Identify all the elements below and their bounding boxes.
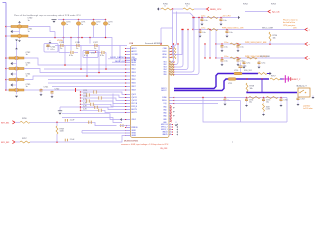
ground below C752 xyxy=(224,102,227,105)
IC right pin VD5 xyxy=(169,71,174,73)
wire nested L x178 xyxy=(174,44,178,65)
junction C754 xyxy=(246,97,248,99)
wire C761 output distribution xyxy=(28,38,112,59)
svg-text:1n: 1n xyxy=(108,24,110,26)
resistor at right pin CKIH xyxy=(172,48,177,50)
resistor at right pin VD4 xyxy=(170,69,175,71)
wire C760 output xyxy=(28,27,55,32)
wire dist drop x71 xyxy=(70,38,72,51)
IC left pin VDD2 xyxy=(125,68,130,70)
svg-text:0.1u: 0.1u xyxy=(223,20,227,22)
svg-text:GND3: GND3 xyxy=(132,135,136,137)
svg-text:U7A: U7A xyxy=(129,42,134,45)
svg-text:VD1: VD1 xyxy=(163,62,166,64)
IC right pin CLKO xyxy=(169,51,172,53)
junction dist x62 xyxy=(63,37,65,39)
net flag arrow left of R750 xyxy=(157,7,159,10)
inductor bank row xyxy=(207,29,218,31)
wire vertical x182 to pin CLKO xyxy=(174,30,182,55)
capacitor C750 second row xyxy=(100,51,106,54)
IC left pin VDD8 xyxy=(125,89,130,91)
wire rail to C763 xyxy=(6,68,9,70)
ground below bank cap xyxy=(201,22,204,25)
svg-text:1n: 1n xyxy=(26,65,28,67)
ground below bank cap xyxy=(221,63,224,66)
svg-text:VPG0: VPG0 xyxy=(162,54,166,56)
junction C756 xyxy=(280,97,282,99)
svg-text:VD5: VD5 xyxy=(163,72,166,74)
junction ferrite 2 xyxy=(78,19,80,21)
wire vertical x176.5 top feed xyxy=(172,12,177,47)
wire lock detect xyxy=(108,58,127,60)
svg-text:L=120 ohm: L=120 ohm xyxy=(303,108,313,110)
svg-text:1n: 1n xyxy=(81,24,83,26)
wire dist rise x78 xyxy=(78,26,80,38)
junction nested top x183 xyxy=(182,29,183,30)
ground far right xyxy=(312,96,315,99)
wire row C733 xyxy=(81,97,99,99)
svg-text:RESET_2: RESET_2 xyxy=(291,79,301,81)
inductor bank row xyxy=(207,17,218,19)
svg-text:VDD2: VDD2 xyxy=(132,69,136,71)
IC left pin RST_IN xyxy=(125,103,130,105)
capacitor C742 xyxy=(51,90,54,95)
capacitor C756 in filter box xyxy=(280,98,283,103)
capacitor C747 on top rail xyxy=(93,44,99,47)
svg-text:VDDG: VDDG xyxy=(162,100,167,102)
capacitor C745 on top rail xyxy=(59,44,65,47)
resistor R750 xyxy=(161,8,172,10)
ground below C757 xyxy=(297,103,300,106)
filter box bottom edge xyxy=(241,121,288,123)
junction nested top x178 xyxy=(177,43,178,44)
wire drop v3 xyxy=(98,46,100,73)
wire bank feed x216 xyxy=(215,30,217,59)
IC left pin PWRON xyxy=(125,127,130,129)
svg-text:PWRON: PWRON xyxy=(132,127,138,129)
wire to mid ground xyxy=(60,94,113,108)
svg-text:VD4: VD4 xyxy=(163,69,166,71)
ground below bank cap xyxy=(237,49,240,52)
ground below bank cap xyxy=(237,63,240,66)
capacitor/resistor on row 2.2K xyxy=(90,103,92,106)
svg-text:10u: 10u xyxy=(249,102,252,104)
svg-text:1n: 1n xyxy=(76,48,78,50)
svg-text:R766: R766 xyxy=(22,118,27,120)
svg-text:10n: 10n xyxy=(244,66,247,68)
wire rail to C765 xyxy=(6,89,9,91)
svg-text:BOOT1: BOOT1 xyxy=(132,112,137,114)
ground below bank cap xyxy=(226,34,229,37)
svg-text:VDD6: VDD6 xyxy=(132,83,136,85)
ground arrow left feedthrough bank xyxy=(11,83,13,86)
junction on rail at FB2 xyxy=(5,35,7,37)
svg-text:GND: GND xyxy=(163,113,166,115)
net stub row 2.2K y104.3 xyxy=(80,104,81,105)
wire row C732 xyxy=(81,94,87,96)
IC left pin AVCC1 xyxy=(125,48,130,50)
capacitor/resistor on row 2.2K xyxy=(98,109,100,112)
svg-text:QVCC1: QVCC1 xyxy=(132,97,137,99)
ground arrow above C762 xyxy=(15,48,18,50)
bus wire C xyxy=(48,82,127,84)
capacitor on bank row xyxy=(221,57,223,59)
svg-text:NVCC_EMI: NVCC_EMI xyxy=(260,56,270,58)
ground right-mid xyxy=(258,65,261,68)
svg-text:GND24: GND24 xyxy=(162,132,167,134)
wire sys clk xyxy=(245,11,268,13)
wire row 4.7K xyxy=(81,100,87,102)
IC U7B body xyxy=(131,46,170,138)
junction C755 xyxy=(263,97,265,99)
svg-text:GND: GND xyxy=(163,119,166,121)
svg-text:CPU pwr pins: CPU pwr pins xyxy=(283,25,295,27)
svg-text:LOCKD: LOCKD xyxy=(132,59,138,61)
wire bank row y17.5 xyxy=(193,17,236,19)
IC left pin GND3 xyxy=(125,135,130,137)
resistor at right pin VD3 xyxy=(170,66,175,68)
inductor L751 inline path B xyxy=(228,78,236,80)
svg-text:0.1u: 0.1u xyxy=(100,55,104,57)
svg-text:POR_B: POR_B xyxy=(132,106,137,108)
junction on rail at C764 xyxy=(5,79,7,81)
wire C762 output xyxy=(24,58,127,65)
svg-text:NVCC2: NVCC2 xyxy=(161,90,166,92)
junction bottom row2 xyxy=(56,141,58,143)
ground arrow left of ferrite row xyxy=(52,19,57,21)
net flag SENS_CPU xyxy=(206,7,209,10)
svg-text:VPG1: VPG1 xyxy=(162,57,166,59)
wire vertical x205 xyxy=(204,44,206,58)
svg-text:BOOT0: BOOT0 xyxy=(132,109,137,111)
capacitor C752 on y97 xyxy=(224,97,225,98)
inductor bank row xyxy=(230,57,241,59)
wire drop v6 xyxy=(119,46,121,63)
IC pin arrow VREF xyxy=(120,118,122,121)
red net stub x75 xyxy=(75,88,77,92)
svg-text:VDD_1P4: VDD_1P4 xyxy=(244,70,252,72)
IC left pin QVCC1 xyxy=(125,97,130,99)
feedthrough capacitor C765 xyxy=(9,88,24,91)
svg-text:FUSE: FUSE xyxy=(162,97,166,99)
svg-text:and filter: and filter xyxy=(303,105,311,108)
svg-text:VDD4: VDD4 xyxy=(132,76,136,78)
ground below C741 xyxy=(40,93,43,96)
net stub row C732 y95.0 xyxy=(79,94,81,96)
net stub row C733 y98.0 xyxy=(80,97,81,98)
IC left pin VDD1 xyxy=(125,64,130,66)
ferrite bead FB76 xyxy=(78,20,80,22)
capacitor on bank row xyxy=(220,17,222,19)
svg-text:0.1u: 0.1u xyxy=(51,49,55,51)
IC left pin VDD4 xyxy=(125,75,130,77)
svg-text:GPIO1_B: GPIO1_B xyxy=(161,124,168,126)
net flag end of bank row xyxy=(305,28,308,31)
ground below C754 xyxy=(245,104,248,107)
wire mux out xyxy=(112,61,127,63)
svg-text:Place all the feedthrough caps: Place all the feedthrough caps on second… xyxy=(14,14,81,17)
resistor R767 xyxy=(20,141,30,143)
wire rail top stub xyxy=(3,2,7,4)
junction on rail at FB1 xyxy=(5,26,7,28)
capacitor on bank row xyxy=(237,43,239,45)
junction on rail at C765 xyxy=(5,89,7,91)
IC left pin QVCC xyxy=(125,94,130,96)
capacitor/resistor on row 2.2K xyxy=(94,106,96,109)
capacitor on bank row xyxy=(199,29,201,31)
capacitor right-mid xyxy=(258,61,261,66)
wire rail to C762 xyxy=(6,57,9,59)
IC left pin LOCKD xyxy=(125,58,130,60)
capacitor on bank row xyxy=(201,17,203,19)
wire drop v4 xyxy=(86,56,88,77)
svg-text:L750: L750 xyxy=(234,70,238,72)
svg-text:0.1u: 0.1u xyxy=(229,32,233,34)
resistor at right pin VPG0 xyxy=(172,54,177,56)
capacitor C770 above thick wire xyxy=(239,65,243,67)
junction bank feed row1 xyxy=(192,17,193,18)
IC right pin CKIH xyxy=(169,48,172,50)
IC left pin BOOT0 xyxy=(125,109,130,111)
capacitor C744 in box xyxy=(47,44,50,46)
junction dist x82 xyxy=(81,37,83,39)
svg-text:Place C close to: Place C close to xyxy=(283,19,298,22)
junction v2 xyxy=(80,68,82,70)
svg-text:PWR_VDD3_NVCC_EMI: PWR_VDD3_NVCC_EMI xyxy=(245,42,267,44)
svg-text:Freescale MCIMX31: Freescale MCIMX31 xyxy=(145,42,162,45)
svg-text:GND1: GND1 xyxy=(132,130,136,132)
svg-text:0.1u: 0.1u xyxy=(69,55,73,57)
resistor R751 xyxy=(183,8,194,10)
IC left pin BOOT1 xyxy=(125,112,130,114)
group box around C744 xyxy=(44,44,58,53)
junction dist x90 xyxy=(89,37,91,39)
svg-text:1n: 1n xyxy=(94,48,96,50)
IC left pin VCC32K xyxy=(125,54,130,56)
feedthrough capacitor C764 xyxy=(9,78,24,81)
IC right pin VD6 xyxy=(169,74,174,76)
resistor R763v below C755 xyxy=(263,104,265,112)
svg-text:SENS_CPU: SENS_CPU xyxy=(210,9,222,11)
ground arrow below C761 xyxy=(19,38,21,40)
ferrite bead FB78 xyxy=(105,20,107,22)
capacitor C760b inline xyxy=(88,121,90,124)
svg-text:C7xx: C7xx xyxy=(246,63,250,65)
capacitor C759 xyxy=(64,139,66,142)
wire cluster top rail xyxy=(55,45,127,47)
IC left pin POR_B xyxy=(125,106,130,108)
wire C764 output xyxy=(24,76,127,80)
svg-text:R767: R767 xyxy=(22,138,27,140)
IC right pin VD3 xyxy=(169,66,174,68)
filter box right edge xyxy=(286,98,288,123)
pin wire after arrow xyxy=(120,125,131,127)
ground below R763v xyxy=(262,113,265,116)
IC left pin QVCC2 xyxy=(125,100,130,102)
junction v3 xyxy=(98,72,100,74)
resistor R757 on path B xyxy=(270,78,280,80)
junction nested top x188 xyxy=(187,29,188,30)
IC right pin IOQ xyxy=(169,103,174,105)
ground below C742 xyxy=(51,95,54,98)
feedthrough capacitor C762 xyxy=(9,56,24,59)
IC left pin AVCC2 xyxy=(125,51,130,53)
resistor at right pin CLKO xyxy=(172,51,177,53)
net stub row C731 y92.0 xyxy=(80,91,81,92)
wire bottom row 2b xyxy=(30,136,131,143)
svg-text:QVCC2: QVCC2 xyxy=(132,100,137,102)
capacitor on bank row xyxy=(226,29,228,31)
capacitor C754 in filter box xyxy=(245,98,248,103)
junction C770 on thick wire xyxy=(240,73,241,74)
IC left pin VDD3 xyxy=(125,72,130,74)
wire dist drop x90 xyxy=(89,38,91,44)
wire cluster verticals xyxy=(59,46,69,53)
svg-text:x: x xyxy=(232,141,233,143)
capacitor C748 second row xyxy=(69,51,75,54)
svg-text:C756: C756 xyxy=(283,100,287,102)
ground below bank cap xyxy=(221,49,224,52)
junction bottom row1 xyxy=(56,122,58,124)
IC right bottom pins xyxy=(169,124,173,126)
IC left pin GND1 xyxy=(125,130,130,132)
wire nested L x188 xyxy=(174,30,188,70)
svg-text:GND25: GND25 xyxy=(162,134,167,136)
IC right pin VPG1 xyxy=(169,57,172,59)
junction y97 drop xyxy=(202,97,203,98)
feedthrough capacitor C763 xyxy=(9,67,24,70)
wire vertical x210 xyxy=(209,30,211,59)
svg-text:0.1u: 0.1u xyxy=(202,32,206,34)
bus wire A xyxy=(44,68,127,70)
svg-text:10k: 10k xyxy=(250,88,253,90)
resistor R756 after path A xyxy=(258,73,267,75)
ground arrow below C765 xyxy=(16,92,18,94)
svg-text:GPIO1_7: GPIO1_7 xyxy=(161,127,168,129)
svg-text:1n: 1n xyxy=(28,31,30,33)
wire vertical x172 xyxy=(172,9,174,56)
wire vertical row1-row2 xyxy=(56,122,58,126)
junction bank feed row4 xyxy=(215,57,216,58)
IC left pin CKIL xyxy=(125,57,130,59)
wire GPIO rows left link xyxy=(81,131,83,134)
wire drop v2 xyxy=(80,46,82,70)
capacitor/resistor on row C733 xyxy=(98,96,100,99)
wire row y97.5 box top xyxy=(174,97,287,99)
svg-text:C7xx: C7xx xyxy=(201,28,205,30)
net stub row 2.2K y107.3 xyxy=(79,106,81,108)
svg-text:0.1u: 0.1u xyxy=(240,46,244,48)
wire ferrite row y19.5 xyxy=(58,19,106,21)
junction nested top x173.5 xyxy=(173,43,174,44)
svg-text:C7xx: C7xx xyxy=(224,56,228,58)
wire R751 to SENS_CPU xyxy=(194,8,206,10)
svg-text:xxxxxxxx = 100R, input voltage: xxxxxxxx = 100R, input voltage = 1.8 Kee… xyxy=(121,143,169,146)
resistor at right pin VD1 xyxy=(170,61,175,63)
svg-text:Sys_Clk: Sys_Clk xyxy=(272,12,281,14)
ground arrow left feedthrough bank xyxy=(11,62,13,65)
svg-text:GPIO3_1: GPIO3_1 xyxy=(161,129,168,131)
ground below C756 xyxy=(280,104,283,107)
svg-text:RST_IN: RST_IN xyxy=(132,103,138,105)
svg-text:VDD7: VDD7 xyxy=(132,86,136,88)
thick wire VDD path B xyxy=(174,79,269,91)
capacitor C755 in filter box xyxy=(262,98,265,103)
IC right pin VD1 xyxy=(169,61,174,63)
junction bank feed row3 xyxy=(215,43,216,44)
junction ferrite 1 xyxy=(63,19,65,21)
svg-text:x: x xyxy=(309,30,310,32)
IC left pin VDD6 xyxy=(125,82,130,84)
group box around C751 xyxy=(83,51,98,58)
svg-text:the ball of the: the ball of the xyxy=(283,21,296,24)
resistor at right pin VD2 xyxy=(170,64,175,66)
resistor R758 vertical xyxy=(246,83,248,92)
ground arrow down top of spine xyxy=(15,40,18,42)
wire rail to FB1 xyxy=(6,26,11,28)
ground arrow left between C760 C761 xyxy=(11,30,13,33)
wire bottom row 1 xyxy=(15,121,20,123)
wire junction drop xyxy=(54,32,56,38)
testpoint magenta RESET xyxy=(284,75,286,83)
capacitor/resistor on row C732 xyxy=(86,93,88,96)
svg-text:C7xx: C7xx xyxy=(261,63,265,65)
junction v4 xyxy=(86,75,88,77)
IC right pin VD2 xyxy=(169,64,174,66)
ground arrow above C760 xyxy=(18,21,21,23)
wire GPIO long row A xyxy=(82,130,131,132)
svg-text:C7xx: C7xx xyxy=(224,42,228,44)
junction nested top x199 xyxy=(198,17,199,18)
net stub row 4.7K y101.0 xyxy=(79,100,81,102)
arrow right path A xyxy=(270,72,272,75)
wire ferrite drop x105.5 xyxy=(105,26,107,38)
wire bank row y29.5 xyxy=(193,29,305,31)
net flag end of bank row xyxy=(305,56,308,59)
wire row C731 xyxy=(81,91,94,93)
capacitor C746 on top rail xyxy=(75,44,81,47)
wire ferrite drop x93.5 xyxy=(93,26,95,38)
junction on rail at C763 xyxy=(5,68,7,70)
wire long bottom A xyxy=(62,114,127,120)
net flag SYS_CLK xyxy=(268,10,271,13)
junction PWRON line xyxy=(126,125,127,126)
wire row y100.5 xyxy=(174,100,241,102)
bus wire B xyxy=(48,79,127,81)
svg-text:1n: 1n xyxy=(26,54,28,56)
wire C763 output xyxy=(24,69,127,73)
resistor R755 on row4 xyxy=(247,57,257,59)
junction path B drop xyxy=(261,78,263,80)
IC right pin FUSE xyxy=(169,97,174,99)
svg-text:1n: 1n xyxy=(26,86,28,88)
thick wire path C xyxy=(247,92,297,93)
ground flag with arrow at x50 xyxy=(49,40,51,42)
resistor R754 vertical row2-row3 xyxy=(269,32,271,41)
svg-text:MCIMX31VKN5: MCIMX31VKN5 xyxy=(124,140,139,142)
svg-text:VDD8: VDD8 xyxy=(132,90,136,92)
wire drop v5 xyxy=(105,53,107,70)
wire bottom row 1b xyxy=(30,122,117,125)
NC stack arrows xyxy=(173,107,175,108)
capacitor right-mid xyxy=(243,61,246,66)
svg-text:C757: C757 xyxy=(300,99,304,101)
wire GPIO long row B xyxy=(82,132,131,134)
svg-text:10k: 10k xyxy=(273,37,276,39)
junction v5 xyxy=(105,68,107,70)
svg-text:0.1u: 0.1u xyxy=(224,46,228,48)
ferrite bead FB75 xyxy=(63,20,65,22)
